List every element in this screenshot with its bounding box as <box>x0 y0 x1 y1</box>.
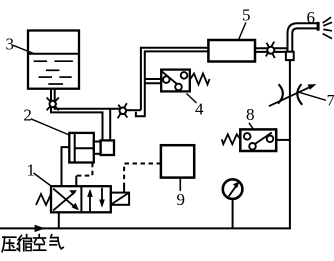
leader line 2 <box>31 119 69 135</box>
char 压 <box>3 236 16 238</box>
controller 9 box <box>161 145 194 177</box>
cylinder 2 inner wall <box>74 133 76 163</box>
flow arrow on main line <box>35 225 45 232</box>
wire: pipe segment right of valve V2 <box>126 109 141 111</box>
svg-text:5: 5 <box>242 6 251 25</box>
dashed feedback line cylinder to valve 1 <box>76 163 92 176</box>
wire: pipe unit5 to valve V3 (two lines) <box>255 47 288 49</box>
wire: switch 8 to right column <box>276 139 290 141</box>
leader line 8 <box>249 123 254 130</box>
svg-text:7: 7 <box>327 92 334 109</box>
wire: tank outlet pipe outer line (down, right, down to cylinder block) <box>51 89 103 141</box>
air jet symbol 7 arcs <box>278 84 283 103</box>
nozzle collar <box>286 52 294 60</box>
wire: valve 1 bottom to main line <box>58 212 60 228</box>
cylinder 2 body <box>69 133 94 163</box>
leader line 5 <box>239 22 246 39</box>
char 气 <box>51 235 58 238</box>
tank liquid surface line <box>28 53 79 55</box>
valve 1 solenoid <box>111 193 129 205</box>
valve 1 crossed arrows (left square) <box>53 189 77 209</box>
valve 1 return spring <box>36 194 51 205</box>
svg-text:9: 9 <box>177 190 186 209</box>
svg-text:2: 2 <box>23 105 32 124</box>
wire: valve 1 output to cylinder <box>62 147 70 186</box>
valve 1 body <box>51 186 111 212</box>
wire: right column down pipe <box>289 58 291 228</box>
atomizer 5 box <box>208 40 255 62</box>
cylinder 2 valve block <box>101 140 114 155</box>
unit 4 contacts <box>163 76 170 83</box>
spray lines <box>323 17 332 38</box>
nozzle 6 pipe inner line <box>292 28 317 60</box>
limit unit 4 box <box>161 70 190 92</box>
cylinder 2 piston line <box>75 147 94 149</box>
wire: riser inner line (up and right to unit 5) <box>141 48 209 110</box>
leader line 9 <box>179 178 181 191</box>
valve V1 below tank (X handle) <box>47 98 59 111</box>
wire: branch pipe to unit 4 (two lines) <box>145 78 162 80</box>
svg-text:3: 3 <box>6 35 15 54</box>
valve V2 on horizontal pipe (X handle) <box>118 103 127 118</box>
valve 1 up arrow (right square) <box>89 195 91 212</box>
pressure switch 8 contact lever <box>251 133 272 148</box>
wire: riser outer line (up and right to unit 5) <box>136 51 209 116</box>
cylinder 2 rod block <box>94 142 101 154</box>
nozzle 6 pipe outer line <box>288 23 317 60</box>
dashed pilot line from unit 9 to solenoid <box>124 164 161 187</box>
svg-text:8: 8 <box>246 105 255 124</box>
pressure switch 8 box <box>240 129 276 151</box>
pressure gauge <box>223 179 243 199</box>
unit 4 spring <box>190 74 209 85</box>
air jet symbol 7 arrow <box>269 87 311 107</box>
pressure switch 8 spring <box>222 134 241 144</box>
valve 1 down arrow (right square) <box>101 188 103 202</box>
wire: tank outlet pipe inner line + top horizontal to riser <box>55 89 120 109</box>
svg-text:1: 1 <box>27 161 36 180</box>
valve V3 (X handle) <box>266 42 274 57</box>
char 缩 <box>18 235 22 244</box>
valve 1 divider <box>80 186 82 212</box>
main compressed air line <box>0 227 291 229</box>
char 空 <box>38 235 40 237</box>
leader line 1 <box>34 173 52 187</box>
leader line 3 <box>13 45 34 53</box>
leader line 4 <box>187 94 197 104</box>
unit 4 lever <box>162 71 179 85</box>
nozzle tip cap <box>317 22 320 31</box>
svg-text:6: 6 <box>307 8 316 27</box>
tank 3 (paint tank) <box>28 31 79 89</box>
tank liquid dashes <box>34 61 73 84</box>
wire: gauge stem <box>232 199 234 229</box>
pressure switch 8 contacts <box>244 133 251 140</box>
wire: right line of drop to cylinder block <box>109 109 111 141</box>
text 压缩空气 (compressed air) hand-drawn strokes <box>2 235 63 252</box>
leader line 7 <box>298 92 327 101</box>
